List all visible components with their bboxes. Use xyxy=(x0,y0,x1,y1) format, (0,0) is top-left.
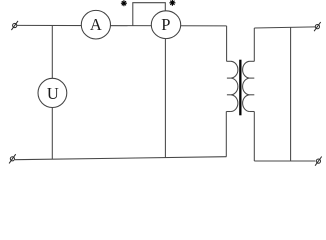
svg-text:P: P xyxy=(161,15,170,34)
svg-text:A: A xyxy=(90,15,102,34)
svg-text:U: U xyxy=(47,84,59,103)
